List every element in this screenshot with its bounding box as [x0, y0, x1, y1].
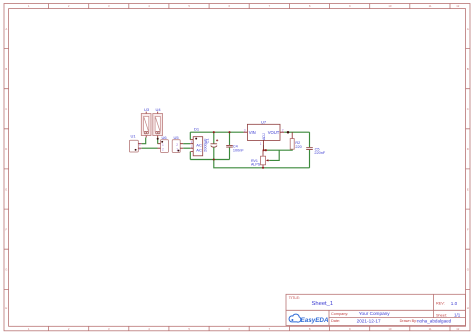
junction U4 drop [157, 138, 159, 140]
svg-text:B: B [467, 67, 469, 71]
wire RV wiper to ADJ net [269, 150, 279, 160]
svg-text:C: C [5, 107, 7, 111]
svg-text:10: 10 [388, 327, 392, 331]
wire U1 pin1 to U6 pin2 [142, 147, 158, 149]
junction C1 top [213, 131, 215, 133]
svg-text:3: 3 [244, 128, 246, 132]
svg-text:C: C [467, 107, 469, 111]
wire ADJ down [262, 144, 264, 150]
svg-text:2: 2 [282, 128, 284, 132]
capacitor C1 [202, 132, 218, 159]
svg-text:noha_abdalgaed: noha_abdalgaed [417, 318, 452, 323]
junction C4 top [228, 131, 230, 133]
svg-text:1: 1 [260, 142, 262, 146]
svg-text:1: 1 [139, 147, 141, 151]
svg-text:TITLE:: TITLE: [289, 296, 300, 300]
fuse holder U4 [153, 107, 163, 138]
svg-text:D: D [5, 147, 7, 151]
bridge rectifier D1 [190, 127, 202, 156]
svg-text:11: 11 [429, 4, 432, 8]
svg-text:A: A [5, 27, 7, 31]
svg-text:VOUT: VOUT [268, 130, 280, 135]
wire top rail to VIN [190, 131, 243, 133]
title block [286, 294, 466, 325]
wire ADJ node to R2 bottom [263, 149, 292, 150]
svg-text:U5: U5 [174, 135, 180, 140]
svg-text:AC: AC [196, 147, 202, 152]
wire U5 pin1 to D1 [183, 147, 190, 149]
svg-text:Drawn By:: Drawn By: [400, 319, 418, 323]
svg-text:100nF: 100nF [233, 148, 244, 152]
wire D1 minus to bottom rail [189, 152, 191, 160]
svg-text:VIN: VIN [249, 130, 256, 135]
svg-text:2: 2 [139, 142, 141, 146]
junction VOUT [287, 131, 290, 134]
svg-text:D: D [467, 147, 469, 151]
svg-text:G: G [467, 268, 469, 272]
svg-text:1.0: 1.0 [451, 301, 458, 306]
svg-text:H: H [5, 306, 7, 310]
svg-text:E: E [5, 187, 7, 191]
wire U5 pin2 to D1 [183, 143, 190, 145]
svg-text:U3: U3 [144, 107, 150, 112]
wire ground rail [214, 160, 310, 168]
wire bottom loop rail [190, 159, 229, 161]
svg-text:1: 1 [176, 148, 178, 152]
svg-text:A: A [467, 27, 469, 31]
svg-text:Date:: Date: [331, 319, 340, 323]
svg-text:12: 12 [456, 4, 460, 8]
svg-text:U6: U6 [162, 135, 168, 140]
svg-text:F: F [467, 228, 469, 232]
svg-text:Sheet:: Sheet: [436, 313, 447, 317]
junction C1 bottom [213, 158, 215, 160]
EasyEDA logo [289, 314, 329, 324]
connector U6 [158, 135, 169, 152]
svg-text:12: 12 [456, 327, 460, 331]
svg-text:ALPS: ALPS [251, 162, 261, 166]
svg-text:F: F [5, 228, 7, 232]
svg-text:E: E [467, 187, 469, 191]
potentiometer RV1 [251, 150, 269, 168]
junction RV bottom [262, 167, 264, 169]
svg-text:11: 11 [429, 327, 432, 331]
wire U4 to U6 pin1 [157, 138, 159, 144]
svg-text:G: G [5, 268, 7, 272]
svg-text:1: 1 [162, 143, 164, 147]
svg-text:D1: D1 [194, 127, 200, 132]
regulator U7 [244, 119, 285, 146]
svg-text:U4: U4 [156, 107, 162, 112]
svg-text:2: 2 [162, 148, 164, 152]
svg-text:B: B [5, 67, 7, 71]
svg-text:U1: U1 [131, 134, 137, 139]
svg-text:Company:: Company: [331, 312, 348, 316]
svg-text:220nF: 220nF [314, 151, 325, 155]
svg-text:10: 10 [388, 4, 392, 8]
svg-text:2000uF: 2000uF [202, 138, 207, 152]
capacitor C5 [306, 147, 326, 155]
svg-text:U7: U7 [261, 119, 267, 124]
svg-text:EasyEDA: EasyEDA [301, 317, 329, 324]
wire right rail [309, 132, 311, 147]
wire U1 pin2 to U3 [142, 138, 146, 144]
svg-text:2021-12-17: 2021-12-17 [357, 318, 381, 323]
wire D1 plus to top rail [189, 132, 191, 140]
svg-text:220: 220 [295, 145, 301, 149]
svg-text:Sheet_1: Sheet_1 [312, 301, 334, 307]
svg-text:ADJ: ADJ [262, 133, 266, 140]
connector U5 [172, 135, 183, 152]
svg-text:Your Company: Your Company [359, 311, 390, 316]
junction ADJ node [263, 149, 265, 151]
svg-text:2: 2 [176, 143, 178, 147]
wire VOUT to right rail [284, 131, 309, 133]
fuse holder U3 [141, 107, 151, 138]
resistor R2 [290, 132, 302, 149]
capacitor C4 [226, 132, 244, 159]
connector U1 [129, 134, 141, 152]
svg-text:REV:: REV: [436, 302, 445, 306]
svg-text:1/1: 1/1 [454, 312, 461, 317]
title block texts [289, 296, 461, 323]
svg-text:H: H [467, 306, 469, 310]
